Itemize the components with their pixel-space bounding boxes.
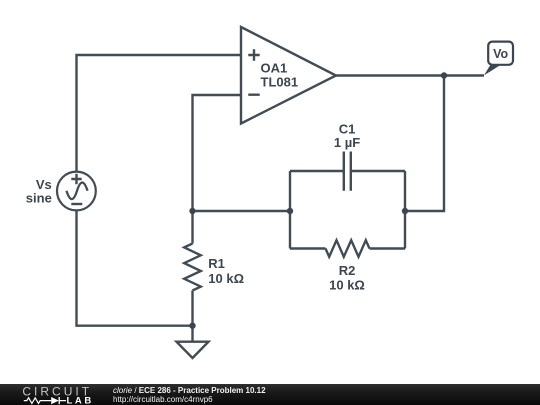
op-amp minus input marker: [248, 93, 259, 95]
source minus marker: [71, 203, 82, 205]
Vo flag pointer: [484, 65, 501, 76]
wire feedback to output: [405, 76, 444, 212]
wire top-left: opamp + input to left rail: [77, 55, 242, 172]
svg-text:R1: R1: [208, 256, 225, 271]
wire C1 to feedback right: [351, 170, 405, 172]
wire R2 to right: [370, 247, 406, 249]
op-amp plus input marker: [248, 49, 259, 60]
wire bottom branch to R2: [290, 247, 326, 249]
svg-text:Vs: Vs: [36, 177, 52, 192]
footer line 1: [113, 387, 266, 395]
resistor R2: [326, 240, 370, 257]
svg-text:sine: sine: [26, 191, 52, 206]
node junction dot feedback right: [402, 208, 408, 214]
wire output: [336, 74, 484, 76]
node junction dot feedback left: [287, 208, 293, 214]
svg-text:LAB: LAB: [67, 396, 94, 405]
wire feedback right vertical: [404, 171, 406, 249]
wire feedback left vertical: [289, 171, 291, 249]
capacitor C1 plates: [344, 152, 351, 191]
Vo flag box: [488, 42, 513, 65]
wire ground stub: [191, 326, 193, 342]
node junction dot at inverting input: [189, 208, 195, 214]
wire inverting input: [193, 95, 242, 211]
source sine wave: [67, 183, 88, 200]
footer bar: [0, 384, 540, 405]
resistor R1: [184, 244, 201, 291]
wire node to feedback left: [193, 210, 291, 212]
op-amp U1 triangle: [241, 27, 336, 124]
svg-text:Vo: Vo: [493, 47, 508, 61]
wire bottom-left: source bottom to ground node: [77, 211, 193, 326]
svg-text:1 µF: 1 µF: [334, 135, 360, 150]
svg-text:10 kΩ: 10 kΩ: [329, 278, 365, 293]
source plus marker: [71, 174, 81, 184]
svg-text:R2: R2: [339, 263, 356, 278]
ground symbol: [177, 342, 209, 358]
node junction dot ground: [189, 323, 195, 329]
wire R1 top: [191, 211, 193, 244]
svg-text:TL081: TL081: [261, 75, 299, 90]
wire R1 bottom: [191, 291, 193, 326]
node junction dot output: [441, 72, 447, 78]
footer line 2: [113, 396, 213, 404]
svg-text:10 kΩ: 10 kΩ: [208, 271, 244, 286]
svg-text:OA1: OA1: [261, 61, 288, 76]
voltage source Vs circle: [57, 172, 96, 211]
wire feedback top to C1: [290, 170, 344, 172]
CircuitLab logo: [0, 384, 110, 405]
